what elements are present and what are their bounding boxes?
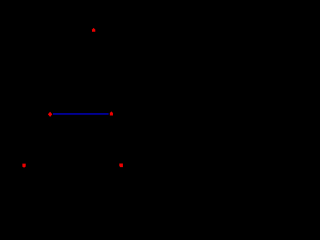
node N2 (right up-arrow marker)	[110, 111, 114, 115]
member M1 (blue beam between nodes N1 and N2)	[53, 113, 109, 115]
load arrow F1 (top, up-pointing arrowhead on base, node at top of structure)	[92, 28, 96, 32]
support S2 (bottom right marker)	[119, 164, 123, 168]
support S1 (bottom left marker)	[22, 164, 25, 168]
node N1 (left diamond marker)	[48, 112, 52, 117]
